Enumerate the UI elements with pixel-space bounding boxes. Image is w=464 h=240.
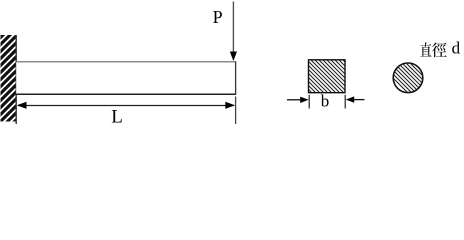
dimension line L [18, 105, 234, 107]
wall face line [15, 35, 17, 124]
load P arrow shaft [232, 2, 234, 53]
svg-text:P: P [213, 7, 223, 27]
fixed wall support hatching [0, 16, 22, 142]
beam bottom edge [16, 93, 235, 95]
load P arrowhead [230, 52, 237, 62]
b dimension right extension tick [344, 95, 346, 109]
label 直 (diameter text char 1) [420, 42, 431, 56]
left dimension arrowhead [17, 102, 27, 109]
beam top edge [16, 61, 235, 63]
square cross-section [276, 57, 380, 97]
svg-text:L: L [111, 106, 123, 127]
b right arrow [353, 99, 365, 101]
right dimension arrowhead [225, 102, 235, 109]
svg-text:d: d [452, 39, 461, 58]
label 徑 (diameter text char 2) [432, 43, 447, 58]
circular cross-section [370, 55, 454, 95]
right extension line [235, 97, 237, 125]
b left arrow [287, 99, 301, 101]
cantilever beam outline [16, 62, 235, 94]
svg-text:b: b [321, 92, 330, 111]
beam right edge [235, 61, 237, 95]
b dimension left extension tick [308, 95, 310, 109]
